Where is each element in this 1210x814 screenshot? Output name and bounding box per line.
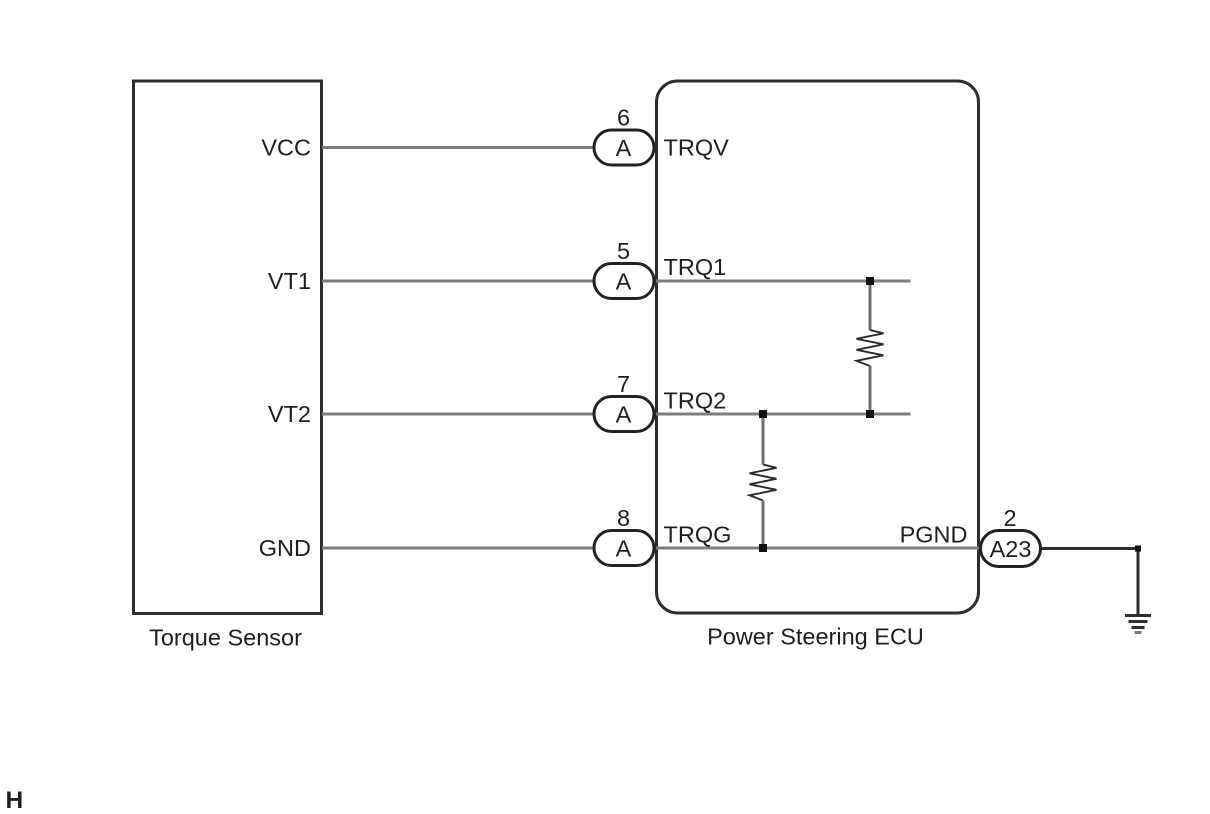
resistor R1 (857, 281, 884, 414)
pin label TRQ1 (664, 254, 727, 280)
svg-text:TRQ1: TRQ1 (664, 254, 727, 280)
svg-text:A: A (616, 536, 632, 562)
connector pin 5 A (594, 238, 654, 299)
wire TRQG to PGND pin A23 (656, 547, 981, 550)
node TRQ1-R1 junction (866, 277, 874, 285)
svg-text:A: A (616, 269, 632, 295)
svg-text:TRQV: TRQV (664, 135, 730, 161)
block Torque Sensor (134, 81, 322, 614)
pin label VCC (261, 135, 311, 161)
svg-text:Power Steering ECU: Power Steering ECU (707, 624, 924, 650)
pin label VT2 (268, 401, 311, 427)
ground (1125, 616, 1151, 633)
pin label PGND (900, 522, 968, 548)
svg-text:Torque Sensor: Torque Sensor (149, 625, 302, 651)
svg-text:H: H (6, 787, 24, 814)
label Torque Sensor (149, 625, 302, 651)
block Power Steering ECU (657, 81, 979, 613)
svg-text:A: A (616, 135, 632, 161)
resistor R2 (750, 414, 777, 548)
node ground wire corner (1135, 546, 1141, 552)
wire TRQ2 net (656, 413, 911, 416)
wire VCC to pin 6 (322, 146, 594, 149)
pin label TRQV (664, 135, 730, 161)
svg-text:5: 5 (617, 238, 630, 264)
wire PGND to ground (1041, 549, 1139, 615)
svg-text:7: 7 (617, 371, 630, 397)
svg-text:VT2: VT2 (268, 401, 311, 427)
node TRQG-R2 junction (759, 544, 767, 552)
wire GND to pin 8 (322, 547, 594, 550)
svg-text:PGND: PGND (900, 522, 968, 548)
node TRQ2-R1 junction (866, 410, 874, 418)
pin label TRQG (664, 522, 732, 548)
wire VT1 to pin 5 (322, 280, 594, 283)
svg-text:2: 2 (1003, 505, 1016, 531)
connector pin 6 A (594, 105, 654, 166)
svg-text:GND: GND (259, 535, 311, 561)
wire TRQ1 net (656, 280, 911, 283)
svg-text:8: 8 (617, 505, 630, 531)
svg-text:TRQ2: TRQ2 (664, 388, 727, 414)
svg-text:VT1: VT1 (268, 268, 311, 294)
pin label TRQ2 (664, 388, 727, 414)
node TRQ2-R2 junction (759, 410, 767, 418)
label Power Steering ECU (707, 624, 924, 650)
svg-text:TRQG: TRQG (664, 522, 732, 548)
svg-text:A: A (616, 402, 632, 428)
connector pin 8 A (594, 505, 654, 566)
svg-text:A23: A23 (990, 536, 1032, 562)
label H page marker (6, 787, 24, 814)
pin label GND (259, 535, 311, 561)
connector pin 7 A (594, 371, 654, 432)
connector pin 2 A23 (981, 505, 1041, 567)
pin label VT1 (268, 268, 311, 294)
svg-text:6: 6 (617, 105, 630, 131)
svg-text:VCC: VCC (261, 135, 311, 161)
wire VT2 to pin 7 (322, 413, 594, 416)
